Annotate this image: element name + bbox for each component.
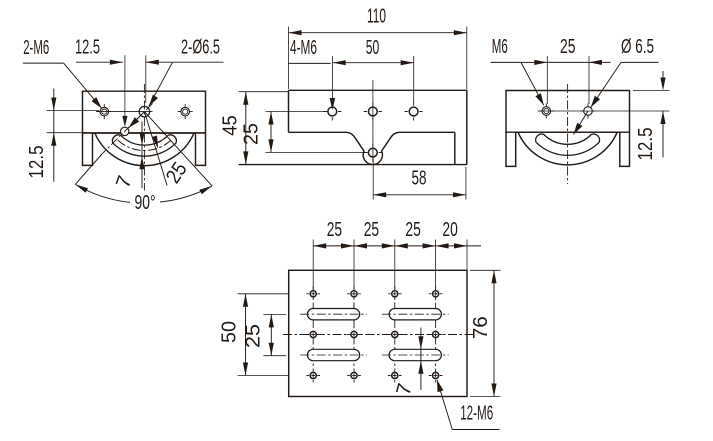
svg-text:12-M6: 12-M6: [460, 402, 493, 425]
left view M6 hole right: [178, 111, 193, 113]
svg-text:58: 58: [412, 167, 427, 190]
M6 leader: [521, 62, 544, 105]
right view bottom arc edge: [518, 132, 617, 165]
bottom view long horizontal centerline: [283, 334, 476, 336]
right view curved slot: [536, 134, 600, 155]
45 dim: [239, 91, 289, 93]
25 dim (bottom view left): [263, 313, 286, 315]
left view body outline: [83, 91, 206, 133]
left view center hole (Ø6.5): [139, 106, 149, 116]
left 12.5 vertical dim: [47, 110, 99, 112]
left view angled hole (Ø6.5): [121, 127, 129, 135]
left view 45deg dash-dot centerline through angled hole: [100, 103, 152, 155]
ext line centre hole top: [145, 55, 147, 103]
svg-text:25: 25: [327, 218, 342, 241]
front view bottom edge: [239, 164, 467, 166]
right view body outline: [506, 91, 630, 133]
58 dim: [372, 158, 374, 200]
left view step line: [83, 132, 206, 134]
left view left leg: [83, 133, 93, 165]
left view M6 hole left: [97, 111, 112, 113]
svg-text:25: 25: [405, 218, 420, 241]
slot width 7 dim line: [141, 122, 143, 189]
right view left leg: [506, 132, 516, 166]
top dim line 25/25/25/20: [313, 245, 481, 247]
left view curved slot: [112, 135, 176, 156]
front view outline: [289, 90, 467, 164]
svg-text:50: 50: [217, 321, 240, 343]
svg-text:45: 45: [219, 115, 242, 136]
25 dim (right view) + leader shelf: [491, 61, 611, 63]
front view right step vertical: [454, 132, 456, 164]
Ø6.5 second arrow (angled hole direction): [574, 111, 589, 135]
left view hole row centerline: [96, 111, 153, 113]
svg-text:90°: 90°: [135, 191, 156, 214]
svg-text:M6: M6: [492, 35, 508, 58]
50 dim (bottom view left): [238, 293, 289, 295]
front view M6 holes row: [323, 111, 341, 113]
110 dim: [288, 27, 290, 90]
right view right leg: [620, 132, 630, 166]
svg-text:20: 20: [442, 218, 457, 241]
right 12.5 dim: [633, 90, 670, 92]
Ø6.5 leader: [621, 61, 659, 63]
bottom view 12 M6 holes: [310, 291, 316, 297]
svg-text:25: 25: [560, 35, 576, 58]
svg-text:12.5: 12.5: [634, 128, 657, 161]
svg-text:76: 76: [469, 316, 492, 339]
svg-text:2-M6: 2-M6: [23, 36, 49, 59]
svg-text:50: 50: [366, 36, 380, 59]
2-M6 leader: [23, 62, 64, 64]
right view step line: [506, 131, 630, 133]
left view right leg: [196, 133, 206, 165]
90deg dim arc: [75, 184, 130, 202]
bottom view slots: [307, 309, 359, 320]
7 dim (bottom view): [420, 328, 422, 390]
90deg dim boundary line left: [75, 155, 101, 185]
svg-text:12.5: 12.5: [25, 146, 48, 179]
ext line through angled hole with arrow: [124, 55, 126, 124]
svg-text:25: 25: [364, 218, 379, 241]
svg-text:Ø 6.5: Ø 6.5: [621, 35, 654, 58]
bottom view top dim exts: [312, 240, 314, 291]
76 dim: [470, 269, 501, 271]
top 12.5 dim: [76, 61, 123, 63]
bottom view outline: [289, 270, 467, 396]
front view bottom middle hole: [364, 152, 382, 154]
left view vertical centerline: [143, 84, 145, 191]
svg-text:25: 25: [240, 123, 263, 145]
right view vertical centerline: [567, 84, 569, 184]
svg-text:110: 110: [367, 5, 386, 28]
right view Ø6.5 hole: [581, 110, 596, 112]
bottom view column centerlines: [312, 286, 314, 384]
svg-text:25: 25: [242, 324, 265, 348]
R25 leader line with arrow on slot centre arc: [144, 112, 167, 186]
right view hole row line: [538, 110, 670, 112]
2-Ø6.5 leader to centre hole: [149, 62, 173, 106]
2-Ø6.5 second arrow to angled hole: [129, 112, 145, 128]
50 dim: [413, 56, 415, 103]
svg-text:12.5: 12.5: [75, 36, 100, 59]
90deg dim boundary line right: [144, 112, 212, 186]
left view bottom arc edge: [95, 133, 194, 166]
right view M6 hole: [539, 110, 554, 112]
front view mid step edge with curved notch: [289, 132, 455, 164]
svg-text:4-M6: 4-M6: [290, 36, 317, 59]
25 dim (front): [266, 111, 329, 113]
left view slot centerline arc (dash-dot): [118, 140, 171, 150]
svg-text:2-Ø6.5: 2-Ø6.5: [181, 36, 220, 59]
